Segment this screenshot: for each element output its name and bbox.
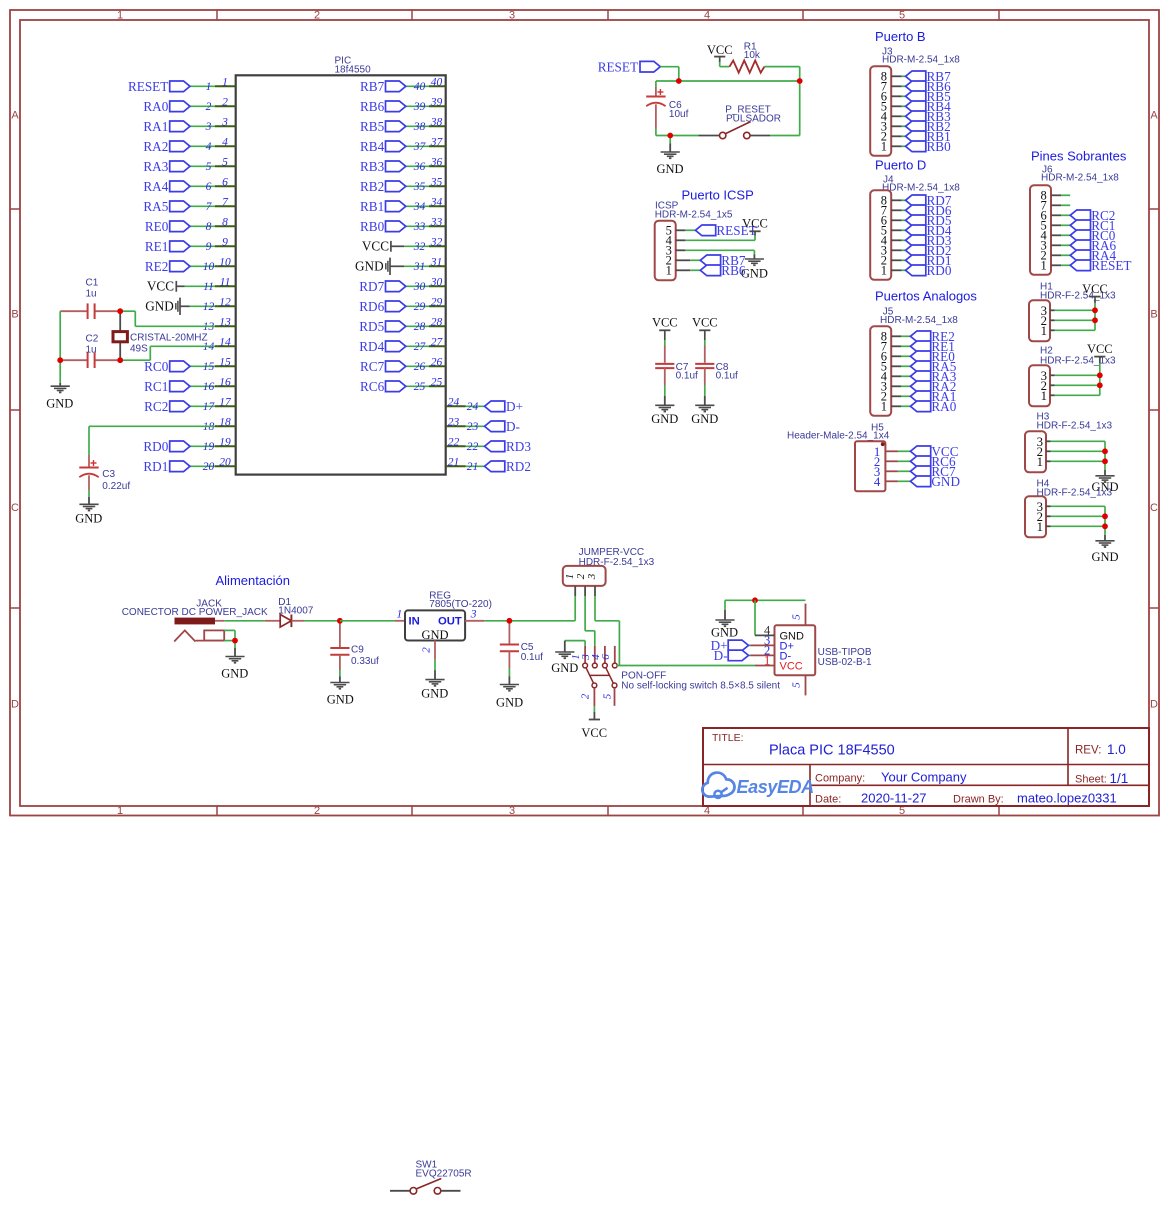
J6 pin 7 (n.c.) <box>1051 204 1070 206</box>
J4 pin 1 net RD0 <box>891 263 952 278</box>
svg-text:No self-locking switch 8.5×8.5: No self-locking switch 8.5×8.5 silent <box>621 680 780 691</box>
svg-text:RB7: RB7 <box>360 79 385 94</box>
H3 label <box>1037 411 1113 431</box>
svg-text:HDR-M-2.54_1x8: HDR-M-2.54_1x8 <box>880 315 958 326</box>
svg-text:RD0: RD0 <box>143 439 168 454</box>
svg-text:1: 1 <box>1037 455 1043 469</box>
J6 pin 5 net RC1 <box>1051 218 1115 233</box>
svg-text:6: 6 <box>600 654 612 660</box>
connector J5 HDR-M-2.54_1x8 <box>870 306 958 415</box>
svg-text:0.1uf: 0.1uf <box>716 371 738 382</box>
wire H3 vertical <box>1104 441 1106 475</box>
junction node USB gnd rail <box>752 597 758 603</box>
svg-text:28: 28 <box>414 321 426 333</box>
connector JACK CONECTOR DC POWER_JACK <box>122 598 268 641</box>
svg-text:USB-02-B-1: USB-02-B-1 <box>818 657 872 668</box>
svg-text:11: 11 <box>220 276 231 288</box>
svg-text:4: 4 <box>222 136 228 148</box>
J6 pin 2 net RA4 <box>1051 248 1116 263</box>
crystal X1 CRISTAL-20MHZ <box>113 311 208 360</box>
svg-text:C1: C1 <box>86 277 99 288</box>
switch SW1 EVQ22705R <box>390 1160 472 1195</box>
svg-text:Drawn By:: Drawn By: <box>953 793 1004 805</box>
J4 pin 7 net RD6 <box>891 203 952 218</box>
svg-text:RB0: RB0 <box>360 219 385 234</box>
svg-text:15: 15 <box>219 356 231 368</box>
wire jack sleeve to gnd node <box>224 630 235 640</box>
wire pin13 to crystal top node <box>120 311 215 326</box>
svg-text:1: 1 <box>206 81 212 93</box>
svg-text:Sheet:: Sheet: <box>1075 774 1107 786</box>
IC U1 PIC 18f4550 body <box>236 56 446 475</box>
svg-text:VCC: VCC <box>707 43 733 57</box>
svg-text:RB2: RB2 <box>360 179 384 194</box>
connector H5 Header-Male-2.54_1x4 <box>787 422 890 491</box>
svg-text:RA4: RA4 <box>143 179 168 194</box>
svg-text:A: A <box>11 110 19 122</box>
wire reset bottom rail <box>656 135 800 137</box>
pin 6 RA4 (left) <box>143 176 235 194</box>
pin 25 RC6 (right, inward) <box>360 376 446 394</box>
pin 10 RE2 (left) <box>145 256 236 274</box>
svg-text:C: C <box>1150 502 1158 514</box>
wire C1/C2 left vertical to ground <box>59 311 61 386</box>
svg-text:RB5: RB5 <box>360 119 385 134</box>
svg-text:VCC: VCC <box>780 660 803 672</box>
svg-text:RD2: RD2 <box>506 459 531 474</box>
junction H1 pin2 <box>1092 317 1098 323</box>
connector ICSP HDR-M-2.54_1x5 <box>655 201 733 281</box>
svg-text:GND: GND <box>691 412 718 426</box>
wire gnd stub (jack) <box>234 641 236 657</box>
svg-text:23: 23 <box>467 421 479 433</box>
wire switch pin6 to USB VCC <box>617 665 755 667</box>
svg-text:RC7: RC7 <box>360 359 385 374</box>
wire rail right vertical <box>799 81 801 136</box>
svg-text:PULSADOR: PULSADOR <box>726 113 781 124</box>
wire REG out to rail <box>484 620 575 622</box>
power flag VCC (C7) <box>652 316 678 340</box>
svg-text:GND: GND <box>1091 550 1118 564</box>
svg-text:VCC: VCC <box>652 316 678 330</box>
svg-text:3: 3 <box>470 608 477 620</box>
pin 11 VCC (left) <box>147 276 236 293</box>
svg-text:C: C <box>11 502 19 514</box>
svg-text:VCC: VCC <box>581 726 607 740</box>
svg-text:VCC: VCC <box>692 316 718 330</box>
svg-text:1: 1 <box>117 10 123 22</box>
J6 pin 8 (n.c.) <box>1051 194 1070 196</box>
svg-text:18: 18 <box>219 416 231 428</box>
capacitor C5 0.1uf <box>500 621 543 684</box>
J6 pin 1 net RESET <box>1051 258 1131 273</box>
H4 pin 3 wire <box>1046 505 1105 507</box>
svg-text:3: 3 <box>205 121 212 133</box>
pin 8 RE0 (left) <box>145 216 236 234</box>
svg-text:37: 37 <box>430 136 444 148</box>
svg-text:EVQ22705R: EVQ22705R <box>416 1169 472 1180</box>
svg-text:25: 25 <box>431 376 443 388</box>
pin 21 RD2 (right, outward) <box>446 456 531 474</box>
J4 pin 5 net RD4 <box>891 223 952 238</box>
svg-text:5: 5 <box>206 161 212 173</box>
junction node crystal bottom <box>117 357 123 363</box>
wire H2 vertical <box>1099 375 1101 395</box>
svg-text:D: D <box>1150 699 1158 711</box>
H2 pin 2 wire <box>1050 384 1100 386</box>
ground under C3 <box>75 504 102 525</box>
svg-text:HDR-M-2.54_1x8: HDR-M-2.54_1x8 <box>882 182 960 193</box>
pin 35 RB2 (right, inward) <box>360 176 446 194</box>
svg-text:B: B <box>1150 309 1157 321</box>
svg-text:GND: GND <box>656 162 683 176</box>
svg-text:VCC: VCC <box>147 279 174 294</box>
title block lines <box>810 728 1149 806</box>
svg-text:39: 39 <box>413 101 426 113</box>
ground (C5) <box>496 685 523 710</box>
svg-text:21: 21 <box>467 461 479 473</box>
svg-text:17: 17 <box>203 401 216 413</box>
ground (switch) <box>551 652 578 675</box>
pin 27 RD4 (right, inward) <box>359 336 445 354</box>
pin 34 RB1 (right, inward) <box>360 196 446 214</box>
wire pin14 to crystal bottom node <box>120 346 215 360</box>
svg-text:GND: GND <box>651 412 678 426</box>
pin 37 RB4 (right, inward) <box>360 136 446 154</box>
svg-text:36: 36 <box>413 161 426 173</box>
svg-text:RC0: RC0 <box>144 359 169 374</box>
svg-text:VCC: VCC <box>742 217 768 231</box>
svg-text:RC1: RC1 <box>144 379 168 394</box>
svg-text:RESET: RESET <box>598 59 638 74</box>
svg-text:29: 29 <box>431 296 443 308</box>
H4 label <box>1037 478 1113 498</box>
ICSP pin 3 wire to GND <box>676 250 755 258</box>
pin 30 RD7 (right, inward) <box>359 276 445 294</box>
pin 7 RA5 (left) <box>143 196 235 214</box>
svg-text:1: 1 <box>881 264 887 278</box>
svg-text:HDR-M-2.54_1x8: HDR-M-2.54_1x8 <box>1041 173 1119 184</box>
wire GND stub (reset rail) <box>669 136 671 152</box>
svg-text:34: 34 <box>413 201 426 213</box>
svg-text:RA1: RA1 <box>143 119 168 134</box>
ground (C9) <box>327 683 354 707</box>
wire pin18 to C3 <box>89 426 215 455</box>
pin 20 RD1 (left) <box>143 456 235 474</box>
svg-text:Your Company: Your Company <box>881 769 967 784</box>
USB connector top rail <box>725 600 806 620</box>
connector J4 HDR-M-2.54_1x8 <box>870 174 960 279</box>
svg-text:9: 9 <box>206 241 212 253</box>
pin 9 RE1 (left) <box>145 236 236 254</box>
svg-text:TITLE:: TITLE: <box>712 732 744 744</box>
svg-text:C2: C2 <box>86 333 99 344</box>
connector H3 HDR-F-2.54_1x3 <box>1025 431 1046 472</box>
svg-text:7805(TO-220): 7805(TO-220) <box>429 599 492 610</box>
ICSP pin 1 net RB6 <box>676 263 746 278</box>
net flag RESET (top) <box>598 59 661 74</box>
svg-text:9: 9 <box>222 236 228 248</box>
svg-text:5: 5 <box>222 156 228 168</box>
J3 pin 8 net RB7 <box>891 69 951 84</box>
pin 18 wire (left) <box>203 416 236 433</box>
svg-text:32: 32 <box>413 241 426 253</box>
svg-text:24: 24 <box>448 396 460 408</box>
wire H1 vertical <box>1094 310 1096 330</box>
svg-text:GND: GND <box>221 667 248 681</box>
svg-text:18f4550: 18f4550 <box>335 65 372 76</box>
svg-text:4: 4 <box>206 141 212 153</box>
svg-text:RB4: RB4 <box>360 139 385 154</box>
svg-text:RE0: RE0 <box>145 219 169 234</box>
svg-text:VCC: VCC <box>362 239 389 254</box>
svg-text:31: 31 <box>413 261 426 273</box>
svg-text:8: 8 <box>206 221 212 233</box>
svg-text:27: 27 <box>431 336 444 348</box>
connector H2 HDR-F-2.54_1x3 <box>1029 365 1050 406</box>
power flag VCC (H2) <box>1087 342 1113 375</box>
switch PON-OFF (slide, 2 poles) <box>570 646 780 706</box>
svg-text:2: 2 <box>314 10 320 22</box>
ground (USB) <box>711 620 738 640</box>
J6 pin 4 net RC0 <box>1051 228 1116 243</box>
ground (H3) <box>1091 476 1118 494</box>
svg-text:1: 1 <box>1041 324 1047 338</box>
svg-text:30: 30 <box>413 281 426 293</box>
wire switch pin1 to gnd <box>565 641 585 652</box>
svg-text:RD5: RD5 <box>359 319 384 334</box>
pin 23 D- (right, outward) <box>446 416 520 434</box>
svg-text:1: 1 <box>881 400 887 414</box>
junction node jack gnd <box>232 638 238 644</box>
junction H2 pin2 <box>1097 382 1103 388</box>
pin 40 RB7 (right, inward) <box>360 76 446 94</box>
svg-text:GND: GND <box>46 396 73 410</box>
svg-text:39: 39 <box>430 96 443 108</box>
J3 pin 7 net RB6 <box>891 79 951 94</box>
svg-text:22: 22 <box>448 436 460 448</box>
junction H4 pin1 <box>1102 523 1108 529</box>
svg-text:IN: IN <box>409 615 420 627</box>
svg-text:1: 1 <box>1037 520 1043 534</box>
pin 3 RA1 (left) <box>143 116 235 133</box>
svg-text:C3: C3 <box>102 469 115 480</box>
svg-text:Puerto D: Puerto D <box>875 158 926 173</box>
pin 13 wire (left) <box>203 316 236 333</box>
svg-text:15: 15 <box>203 361 215 373</box>
svg-text:RD6: RD6 <box>359 299 384 314</box>
svg-text:RA2: RA2 <box>143 139 168 154</box>
J4 pin 4 net RD3 <box>891 233 952 248</box>
svg-text:5: 5 <box>602 693 614 699</box>
junction node C2 left <box>57 357 63 363</box>
J5 pin 8 net RE2 <box>891 329 955 344</box>
J3 pin 2 net RB1 <box>891 129 950 144</box>
svg-text:16: 16 <box>219 376 231 388</box>
junction H3 pin1 <box>1102 458 1108 464</box>
svg-text:20: 20 <box>219 456 231 468</box>
svg-text:HDR-M-2.54_1x8: HDR-M-2.54_1x8 <box>882 54 960 65</box>
svg-text:RE1: RE1 <box>145 239 168 254</box>
J6 pin 6 net RC2 <box>1051 208 1115 223</box>
svg-text:26: 26 <box>414 361 426 373</box>
pin 5 RA3 (left) <box>143 156 235 174</box>
H5 pin 4 net GND <box>885 474 960 489</box>
J5 pin 6 net RE0 <box>891 349 955 364</box>
svg-text:Alimentación: Alimentación <box>216 573 290 588</box>
svg-text:RD4: RD4 <box>359 339 384 354</box>
wire D1 to C9 node <box>304 620 340 622</box>
svg-text:VCC: VCC <box>1082 282 1108 296</box>
power flag VCC (H1) <box>1082 282 1108 310</box>
wire REG pin2 to gnd <box>434 660 436 680</box>
svg-text:RESET: RESET <box>1091 258 1131 273</box>
svg-text:1u: 1u <box>86 288 97 299</box>
svg-text:0.1uf: 0.1uf <box>676 371 698 382</box>
J5 pin 2 net RA1 <box>891 389 956 404</box>
capacitor C6 10uf (polarized) <box>646 81 688 136</box>
svg-text:GND: GND <box>421 686 448 700</box>
svg-text:RE2: RE2 <box>145 259 168 274</box>
svg-text:6: 6 <box>206 181 212 193</box>
svg-text:HDR-M-2.54_1x5: HDR-M-2.54_1x5 <box>655 209 733 220</box>
svg-text:25: 25 <box>414 381 426 393</box>
svg-text:3: 3 <box>509 10 515 22</box>
wire H4 vertical <box>1104 506 1106 540</box>
svg-text:26: 26 <box>431 356 443 368</box>
J3 pin 4 net RB3 <box>891 109 951 124</box>
svg-text:RD0: RD0 <box>927 263 952 278</box>
svg-text:Header-Male-2.54_1x4: Header-Male-2.54_1x4 <box>787 430 890 441</box>
svg-text:34: 34 <box>430 196 443 208</box>
pin 12 GND (left) <box>145 296 235 315</box>
svg-text:REV:: REV: <box>1075 745 1101 757</box>
resistor R1 10k <box>730 42 765 73</box>
svg-text:CRISTAL-20MHZ: CRISTAL-20MHZ <box>130 333 208 344</box>
ICSP pin 5 net RESET <box>676 223 757 238</box>
connector H1 HDR-F-2.54_1x3 <box>1029 300 1050 341</box>
pin 15 RC0 (left) <box>144 356 236 374</box>
svg-text:HDR-F-2.54_1x3: HDR-F-2.54_1x3 <box>1037 420 1113 431</box>
svg-text:mateo.lopez0331: mateo.lopez0331 <box>1017 791 1117 806</box>
svg-text:3: 3 <box>586 573 598 580</box>
sheet border frame <box>10 10 1159 817</box>
svg-text:RD1: RD1 <box>143 459 168 474</box>
svg-text:GND: GND <box>75 511 102 525</box>
svg-text:1: 1 <box>666 264 672 278</box>
capacitor C1 1u <box>60 277 120 319</box>
pin 2 RA0 (left) <box>143 96 235 114</box>
svg-text:GND: GND <box>145 299 174 314</box>
junction H1 pin3 <box>1092 307 1098 313</box>
svg-text:GND: GND <box>327 692 354 706</box>
H1 pin 1 wire <box>1050 329 1095 331</box>
pin 32 VCC (right, inward) <box>362 236 446 253</box>
svg-text:RB6: RB6 <box>721 263 746 278</box>
ICSP pin 4 wire to VCC <box>676 232 755 241</box>
wire reset top rail <box>656 80 800 82</box>
svg-text:20: 20 <box>203 461 215 473</box>
J4 pin 6 net RD5 <box>891 213 952 228</box>
svg-text:1: 1 <box>117 805 123 817</box>
svg-text:0.1uf: 0.1uf <box>521 652 543 663</box>
svg-text:37: 37 <box>413 141 427 153</box>
svg-text:8: 8 <box>222 216 228 228</box>
svg-text:27: 27 <box>414 341 427 353</box>
svg-text:32: 32 <box>430 236 443 248</box>
svg-text:0.33uf: 0.33uf <box>351 656 379 667</box>
wire jumper pin3 to switch pin6 / usb <box>595 596 619 666</box>
junction node gnd/rail <box>667 133 673 139</box>
svg-text:1: 1 <box>881 140 887 154</box>
power flag VCC (switch, inverted) <box>581 720 607 741</box>
capacitor C2 1u <box>60 333 120 368</box>
svg-text:14: 14 <box>219 336 231 348</box>
svg-text:GND: GND <box>355 259 384 274</box>
svg-text:RC2: RC2 <box>144 399 168 414</box>
junction H4 pin2 <box>1102 513 1108 519</box>
svg-text:40: 40 <box>431 76 443 88</box>
wire RESET to rail <box>660 67 679 81</box>
svg-text:1/1: 1/1 <box>1110 771 1129 786</box>
capacitor C7 0.1uf <box>655 340 698 405</box>
svg-text:D-: D- <box>506 419 520 434</box>
svg-text:RA5: RA5 <box>143 199 168 214</box>
H3 pin 3 wire <box>1046 440 1105 442</box>
pin 28 RD5 (right, inward) <box>359 316 445 334</box>
svg-text:1: 1 <box>397 608 403 620</box>
pin 14 wire (left) <box>203 336 236 353</box>
J5 pin 7 net RE1 <box>891 339 955 354</box>
pin 22 RD3 (right, outward) <box>446 436 532 454</box>
svg-text:1: 1 <box>1041 259 1047 273</box>
svg-text:D-: D- <box>714 648 728 663</box>
ground (C7) <box>651 405 678 426</box>
pin 31 GND (right, inward) <box>355 256 446 275</box>
pin 36 RB3 (right, inward) <box>360 156 446 174</box>
svg-text:GND: GND <box>551 661 578 675</box>
wire jumper pin2 to switch pin3 <box>585 596 595 646</box>
svg-text:38: 38 <box>413 121 426 133</box>
wire VCC to R1 <box>720 62 730 67</box>
connector H4 HDR-F-2.54_1x3 <box>1025 496 1046 537</box>
svg-text:24: 24 <box>467 401 479 413</box>
ground under C1/C2 <box>46 386 73 410</box>
ground (jack) <box>221 657 248 681</box>
svg-text:1u: 1u <box>86 344 97 355</box>
H2 pin 3 wire <box>1050 374 1100 376</box>
svg-text:49S: 49S <box>130 344 148 355</box>
svg-text:Company:: Company: <box>815 773 865 785</box>
J5 pin 1 net RA0 <box>891 399 957 414</box>
svg-text:Puerto ICSP: Puerto ICSP <box>682 187 754 202</box>
H3 pin 2 wire <box>1046 450 1105 452</box>
H5 pin 2 net RC6 <box>885 454 956 469</box>
H3 pin 1 wire <box>1046 460 1105 462</box>
svg-text:2: 2 <box>579 693 591 699</box>
svg-text:12: 12 <box>219 296 231 308</box>
ICSP pin 2 net RB7 <box>676 253 746 268</box>
J3 pin 3 net RB2 <box>891 119 950 134</box>
svg-text:RB1: RB1 <box>360 199 384 214</box>
H2 pin 1 wire <box>1050 394 1100 396</box>
junction node crystal top <box>117 308 123 314</box>
J4 pin 3 net RD2 <box>891 243 951 258</box>
J5 pin 4 net RA3 <box>891 369 957 384</box>
ground (REG) <box>421 680 448 701</box>
svg-text:19: 19 <box>203 441 215 453</box>
ground (C8) <box>691 405 718 426</box>
